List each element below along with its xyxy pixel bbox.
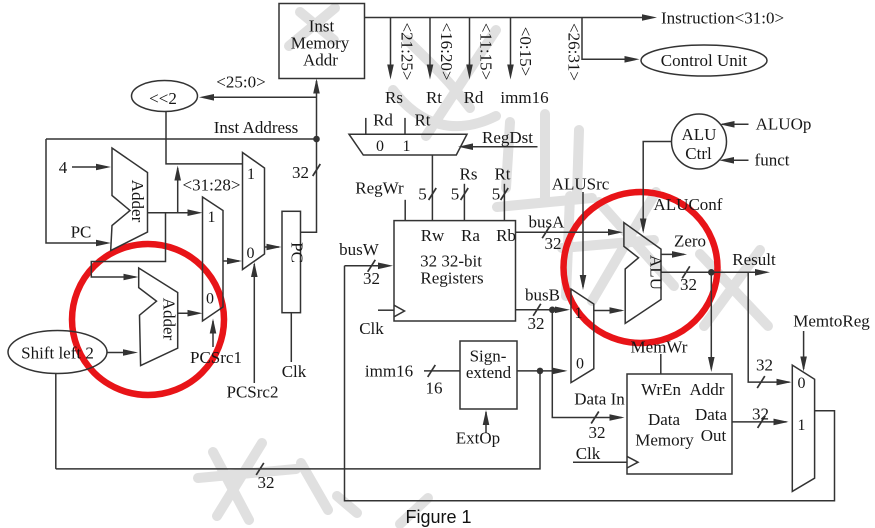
wire: Rt stub into RegDst mux (404, 118, 406, 134)
svg-text:<21:25>: <21:25> (398, 23, 417, 81)
svg-text:Clk: Clk (359, 319, 384, 338)
wire: Clk line into Data Memory (573, 461, 627, 463)
svg-text:RegDst: RegDst (482, 128, 533, 147)
svg-text:32: 32 (752, 405, 769, 424)
svg-text:1: 1 (403, 138, 411, 155)
svg-text:<31:28>: <31:28> (183, 176, 241, 195)
svg-text:Adder: Adder (160, 298, 179, 341)
svg-text:funct: funct (755, 151, 790, 170)
wire: branch offset feedback to Shift left 2 (56, 371, 540, 469)
svg-text:1: 1 (208, 209, 216, 226)
wire: PCSrc1 select arrow (212, 321, 214, 347)
arrowhead: Addr input (313, 79, 320, 94)
wire: Data Out to MemtoReg mux input 1 (732, 421, 787, 423)
register U7: PC register box (282, 211, 301, 312)
mux M3: RegDst mux (Rd/Rt) (349, 134, 467, 155)
svg-text:PC: PC (71, 223, 92, 242)
wire: PC clock stub (290, 313, 292, 362)
wire: Rs field drop <21:25> (390, 18, 392, 67)
arrowhead: result into MemtoReg mux 0 (777, 379, 792, 386)
svg-text:0: 0 (247, 245, 255, 262)
arrowhead: Rd field (466, 65, 473, 80)
wire: RegWr control into register file (404, 200, 406, 221)
arrowhead: shift left 2 out into branch Adder (123, 349, 138, 356)
svg-text:Rt: Rt (494, 165, 510, 184)
arrowhead: busW into register file (378, 263, 393, 270)
wire: imm16 into Sign-extend (424, 370, 460, 372)
svg-text:32: 32 (363, 269, 380, 288)
register file U8: 32 32-bit Registers box (394, 221, 516, 321)
svg-text:imm16: imm16 (500, 88, 548, 107)
svg-text:<0:15>: <0:15> (516, 27, 535, 76)
arrowhead: ExtOp (483, 410, 490, 425)
wire: busB down to Data In (552, 310, 621, 418)
svg-text:Clk: Clk (282, 362, 307, 381)
annotation: red circle around branch Adder (72, 244, 224, 395)
wire: imm16 field drop <0:15> (510, 18, 512, 67)
svg-text:Out: Out (701, 426, 727, 445)
svg-text:5: 5 (418, 185, 427, 204)
wire: Result down to Data Memory Addr (710, 272, 712, 369)
wire: ALUSrc select line (582, 192, 584, 287)
wire: PCSrc2 select arrow (253, 264, 255, 383)
svg-text:Ra: Ra (461, 226, 480, 245)
pin: data memory clock triangle (627, 456, 638, 468)
svg-text:Rw: Rw (421, 226, 445, 245)
control unit U2: Control Unit ellipse (641, 45, 767, 76)
wire: constant 4 into Adder (72, 166, 107, 168)
arrowhead: PCSrc1 mux output (227, 258, 242, 265)
wire: RegDst mux output to Rw port (431, 155, 433, 221)
svg-text:Shift left 2: Shift left 2 (21, 344, 94, 363)
wire: MemtoReg select arrow (803, 331, 805, 369)
svg-text:busW: busW (339, 240, 380, 259)
width slash: 32 on branch feedback (256, 463, 264, 475)
wire: MemtoReg mux output feedback to busW (345, 266, 835, 501)
svg-text:<16:20>: <16:20> (437, 23, 456, 81)
wire: Clk stub into register file (378, 309, 394, 311)
svg-text:ALUSrc: ALUSrc (552, 175, 610, 194)
width slash: 5 on Rw (429, 188, 437, 200)
svg-text:Rt: Rt (414, 111, 430, 130)
wire: Shift left 2 output to branch Adder (107, 352, 134, 354)
wire: Rs input into Ra port (463, 184, 465, 221)
arrowhead: PCSrc1 select (210, 319, 217, 334)
wire: Result net from ALU (661, 271, 767, 273)
node: Result junction dot (708, 269, 715, 276)
svg-text:Addr: Addr (303, 51, 338, 70)
svg-text:ExtOp: ExtOp (456, 429, 500, 448)
wire: busA net from Rb read port to ALU (516, 231, 620, 233)
svg-text:0: 0 (576, 356, 584, 373)
svg-text:ALU: ALU (647, 255, 666, 290)
arrowhead: funct (719, 157, 734, 164)
arrowhead: RegDst select (458, 143, 473, 150)
wire: Result branch to MemtoReg mux input 0 (748, 272, 789, 382)
svg-text:MemWr: MemWr (631, 338, 688, 357)
shifter U3: <<2 ellipse (132, 81, 198, 112)
width slash: 32 on Data Out (758, 416, 766, 428)
svg-text:Data In: Data In (574, 390, 625, 409)
svg-text:Inst Address: Inst Address (214, 118, 299, 137)
arrowhead: ALUSrc select (580, 275, 587, 290)
arrowhead: ALUSrc mux output into ALU (610, 307, 625, 314)
svg-text:Registers: Registers (420, 269, 483, 288)
mux M2: PCSrc2 mux (243, 153, 265, 270)
node: busB junction dot (549, 307, 556, 314)
svg-text:32: 32 (528, 314, 545, 333)
svg-text:<11:15>: <11:15> (477, 23, 496, 80)
svg-text:Rb: Rb (496, 226, 516, 245)
pin: register file clock triangle (394, 305, 405, 317)
memory U12: Data Memory box (627, 374, 732, 474)
svg-text:Ctrl: Ctrl (685, 144, 712, 163)
arrowhead: busA into ALU (608, 229, 623, 236)
svg-text:Zero: Zero (674, 232, 706, 251)
svg-text:Data: Data (648, 410, 681, 429)
mux M4: ALUSrc mux (571, 289, 594, 383)
arrowhead: Addr into Data Memory (708, 357, 715, 372)
svg-text:Rt: Rt (426, 88, 442, 107)
svg-text:extend: extend (466, 363, 512, 382)
wire: funct input arrow (724, 159, 749, 161)
svg-text:Figure 1: Figure 1 (405, 507, 471, 527)
arrowhead: imm16 field (507, 65, 514, 80)
svg-text:ALUConf: ALUConf (654, 195, 723, 214)
arrowhead: Data Out into MemtoReg mux 1 (774, 419, 789, 426)
svg-text:Rd: Rd (464, 88, 484, 107)
svg-text:busA: busA (529, 213, 566, 232)
arrowhead: instruction bus (642, 14, 657, 21)
svg-text:1: 1 (247, 166, 255, 183)
arrowhead: busB into ALUSrc mux (555, 307, 570, 314)
svg-text:Rd: Rd (373, 111, 393, 130)
arrowhead: jog into branch Adder (124, 274, 139, 281)
width slash: 32 to MemtoReg mux 0 (757, 376, 765, 388)
svg-text:0: 0 (798, 375, 806, 392)
adder U5: Adder (branch target) (139, 268, 178, 366)
arrowhead: <31:28> up arrow (174, 166, 181, 181)
arrowhead: Rt field (427, 65, 434, 80)
wire: ALUOp input arrow (722, 123, 749, 125)
arrowhead: ALUOp (720, 121, 735, 128)
wire: busB net from register file to ALUSrc mux (516, 309, 568, 311)
adder U4: Adder (PC+4) (111, 148, 148, 251)
svg-text:<<2: <<2 (149, 89, 177, 108)
svg-text:Addr: Addr (690, 380, 725, 399)
wire: Adder output PC+4 to PCSrc1 mux input 1 (148, 212, 200, 214)
width slash: 32 on Data In (591, 412, 599, 424)
wire: Rd field drop <11:15> (469, 18, 471, 67)
width slash: 32 on PC output (313, 164, 321, 176)
svg-text:32: 32 (258, 473, 275, 492)
wire: ExtOp control arrow (485, 412, 487, 433)
arrowhead: Rs field (387, 65, 394, 80)
wire: Addr input vertical from Inst Address node (316, 81, 318, 139)
wire: opcode drop <26:31> to Control Unit (582, 18, 634, 60)
arrowhead: 4 into Adder (96, 164, 111, 171)
svg-text:32: 32 (680, 275, 697, 294)
svg-text:PCSrc1: PCSrc1 (190, 348, 242, 367)
arrowhead: Zero output (672, 251, 687, 258)
svg-text:ALU: ALU (682, 125, 717, 144)
wire: PC output up to Inst Address (301, 139, 317, 232)
width slash: 32 on busW (368, 260, 376, 272)
wire: Rt field drop <16:20> (429, 18, 431, 67)
alu control U11: ALU Ctrl circle (672, 114, 727, 169)
arrowhead: PC+4 into PCSrc1 mux (188, 209, 203, 216)
wire: imm offset up into Shift left 2 (55, 374, 57, 469)
svg-text:5: 5 (451, 185, 460, 204)
arrowhead: PCSrc2 mux output into PC (267, 244, 282, 251)
arrowhead: Result output (755, 269, 770, 276)
svg-text:MemtoReg: MemtoReg (793, 312, 870, 331)
wire: Zero flag output arrow (661, 253, 684, 255)
svg-text:PCSrc2: PCSrc2 (227, 383, 279, 402)
width slash: 5 on Ra (461, 188, 469, 200)
svg-text:Clk: Clk (576, 444, 601, 463)
wire: PC feedback left vertical down to Adder PC input (46, 139, 107, 243)
svg-text:4: 4 (59, 158, 68, 177)
annotation: red circle around ALU (564, 192, 718, 343)
svg-text:0: 0 (376, 138, 384, 155)
width slash: 32 on Result (682, 266, 690, 278)
svg-text:PC: PC (288, 242, 307, 263)
arrowhead: shifter input (199, 94, 214, 101)
svg-text:Result: Result (732, 250, 776, 269)
svg-text:Adder: Adder (128, 180, 147, 223)
svg-text:Memory: Memory (635, 431, 694, 450)
svg-text:WrEn: WrEn (641, 380, 681, 399)
memory U1: Inst Memory Addr box (279, 4, 365, 79)
width slash: 5 on Rb (501, 188, 509, 200)
shifter U6: Shift left 2 ellipse (8, 331, 107, 374)
arrowhead: MemtoReg select (800, 357, 807, 372)
wire: <31:28> arrow up from PC+4 bus (177, 168, 179, 213)
svg-text:32: 32 (589, 423, 606, 442)
wire: Inst Address net (46, 138, 317, 140)
arrowhead: Data In into memory (610, 414, 625, 421)
wire: Rt input into Rb port (503, 184, 505, 221)
alu U10: ALU (624, 223, 661, 324)
wire: PCSrc1 mux output to PCSrc2 mux input 0 (223, 260, 239, 262)
svg-text:ALUOp: ALUOp (756, 115, 812, 134)
svg-text:<26:31>: <26:31> (565, 23, 584, 81)
svg-text:Instruction<31:0>: Instruction<31:0> (661, 9, 784, 28)
svg-text:1: 1 (575, 305, 583, 322)
arrowhead: ALUConf into ALU (640, 219, 647, 234)
svg-text:Control Unit: Control Unit (661, 51, 748, 70)
svg-text:1: 1 (798, 417, 806, 434)
wire: instruction bus from Inst Memory to Instruction<31:0> (365, 17, 644, 19)
node: sign-extend output junction dot (537, 368, 544, 375)
svg-text:imm16: imm16 (365, 362, 413, 381)
wire: branch Adder output to PCSrc1 mux input 0 (178, 312, 200, 314)
svg-text:RegWr: RegWr (355, 179, 404, 198)
svg-text:5: 5 (492, 185, 501, 204)
wire: ALUSrc mux output to ALU (594, 310, 622, 312)
svg-text:Rs: Rs (385, 88, 403, 107)
wire: PC+4 jog down to second Adder input (91, 213, 165, 277)
svg-text:32: 32 (545, 234, 562, 253)
svg-text:Data: Data (695, 405, 728, 424)
wire: MemWr control stub (660, 354, 662, 374)
arrowhead: PCSrc2 select (251, 262, 258, 277)
wire: Rd stub into RegDst mux (365, 118, 367, 134)
wire: ALUConf from ALU Ctrl down into ALU (643, 142, 671, 232)
wire: <25:0> branch to shifter (207, 96, 317, 98)
arrowhead: sign-extend into ALUSrc mux (553, 368, 568, 375)
wire: Sign-extend output to ALUSrc mux input 0 (517, 370, 565, 372)
svg-text:0: 0 (206, 291, 214, 308)
arrowhead: control unit input (625, 56, 640, 63)
svg-text:busB: busB (525, 286, 560, 305)
width slash: 32 on busA (542, 226, 550, 238)
mux M5: MemtoReg mux (792, 365, 814, 491)
svg-text:32: 32 (292, 163, 309, 182)
svg-text:Rs: Rs (460, 165, 478, 184)
svg-text:32: 32 (756, 356, 773, 375)
arrowhead: branch adder out into PCSrc1 mux (188, 310, 203, 317)
width slash: 16 on imm16 (428, 365, 436, 377)
width slash: 32 on busB (533, 304, 541, 316)
wire: <<2 output down to PCSrc2 mux input 1 (166, 111, 243, 164)
wire: busW input arrow (345, 265, 391, 267)
arrowhead: PC into Adder (96, 240, 111, 247)
mux M1: PCSrc1 mux (203, 197, 224, 321)
svg-text:16: 16 (426, 379, 443, 398)
sign extender U9: Sign-extend box (460, 341, 517, 409)
svg-text:<25:0>: <25:0> (216, 73, 265, 92)
wire: PCSrc2 mux output to PC register (265, 246, 280, 248)
node: Inst Address junction dot (313, 136, 320, 143)
wire: RegDst select line (461, 146, 538, 148)
